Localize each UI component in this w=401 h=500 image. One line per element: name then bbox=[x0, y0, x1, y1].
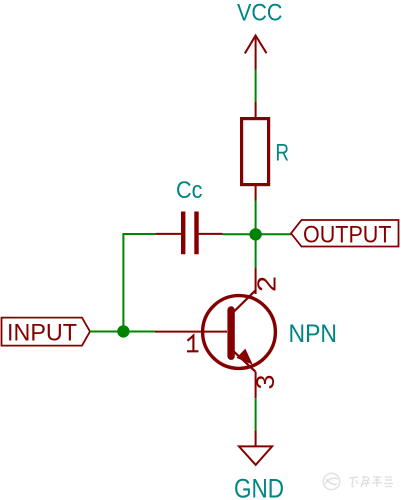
wire input node up to capacitor (vertical) bbox=[122, 234, 124, 331]
capacitor Cc pin 1 (left) bbox=[156, 233, 181, 235]
svg-text:2: 2 bbox=[252, 276, 282, 292]
capacitor Cc bbox=[183, 212, 196, 255]
resistor R pin 1 (top) bbox=[255, 102, 257, 118]
transistor Q NPN bbox=[203, 291, 276, 372]
svg-text:Cc: Cc bbox=[176, 177, 203, 204]
svg-text:OUTPUT: OUTPUT bbox=[303, 222, 392, 249]
ground pin bbox=[255, 430, 257, 446]
svg-text:NPN: NPN bbox=[289, 320, 338, 348]
resistor R pin 2 (bottom) bbox=[255, 186, 257, 201]
wire VCC to resistor R bbox=[255, 70, 257, 103]
watermark text bbox=[349, 476, 393, 487]
wire capacitor to output node bbox=[223, 233, 256, 235]
wire output node to OUTPUT label bbox=[256, 233, 291, 235]
pin number 1 bbox=[187, 336, 199, 352]
svg-text:GND: GND bbox=[234, 474, 284, 500]
global label OUTPUT bbox=[291, 220, 399, 249]
global label INPUT bbox=[2, 318, 91, 347]
resistor R bbox=[242, 119, 269, 185]
wire INPUT label to input node bbox=[90, 331, 155, 333]
power symbol VCC bbox=[237, 0, 283, 70]
ground symbol GND bbox=[239, 446, 272, 465]
wire emitter to ground bbox=[255, 398, 257, 430]
wire output node to transistor collector bbox=[255, 234, 257, 268]
watermark logo bbox=[323, 473, 339, 489]
wire corner to capacitor pin 1 (horizontal) bbox=[122, 233, 156, 235]
svg-text:R: R bbox=[276, 140, 290, 167]
svg-text:VCC: VCC bbox=[237, 0, 283, 27]
transistor Q collector pin 2 bbox=[255, 268, 257, 294]
transistor Q base pin 1 bbox=[155, 331, 227, 333]
wire resistor to output node bbox=[255, 201, 257, 235]
svg-text:3: 3 bbox=[252, 375, 280, 390]
svg-text:INPUT: INPUT bbox=[7, 320, 77, 347]
junction input node bbox=[117, 325, 129, 337]
transistor Q emitter pin 3 bbox=[255, 372, 257, 399]
junction output node bbox=[249, 228, 261, 240]
capacitor Cc pin 2 (right) bbox=[199, 233, 223, 235]
